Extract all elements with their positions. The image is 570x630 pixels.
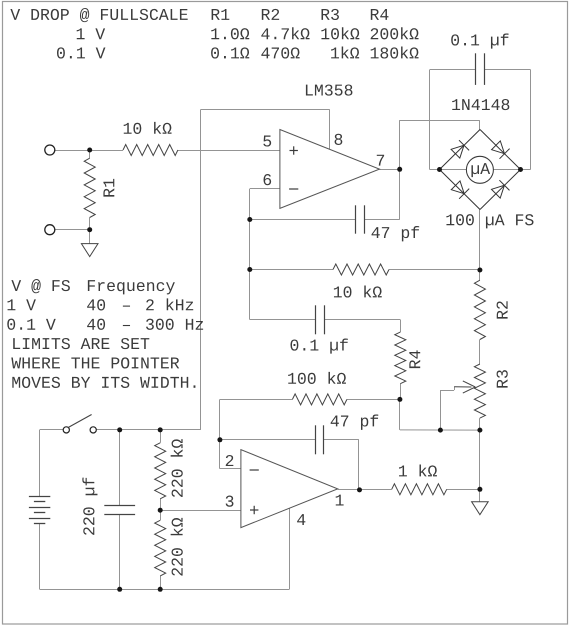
wire R4 bottom lead <box>400 384 402 400</box>
node bridge bottom / R2 top <box>477 268 482 273</box>
pin 2 label <box>226 455 234 466</box>
potentiometer R3 wiper arrow <box>454 386 471 388</box>
table header R4 <box>371 9 389 20</box>
table row2 R3 value <box>331 46 359 58</box>
node feedback res junction <box>247 267 252 272</box>
resistor 220 kOhm lower <box>155 520 166 576</box>
wire bottom of R3 horizontal <box>400 429 480 431</box>
op-amp U1B minus input sign <box>250 469 259 471</box>
node bridge right vertex <box>518 167 523 172</box>
op-amp U1B plus input sign <box>250 509 258 511</box>
wire inverting node 2 vertical <box>219 399 221 468</box>
wire bridge top drop <box>479 120 481 130</box>
wire feedback 10k right <box>389 269 480 271</box>
resistor 100 kOhm <box>292 394 347 405</box>
node input2 ground junction <box>87 227 92 232</box>
wire ground stub right <box>479 489 481 501</box>
diode D3 1N4148 bottom-left <box>451 181 464 194</box>
wire 1k to ground node <box>447 489 480 491</box>
node 47pf lower junction <box>217 437 222 442</box>
input terminal J1 <box>45 145 55 155</box>
op-amp U1A plus input sign <box>290 150 298 152</box>
op-amp U1A triangle <box>280 130 380 209</box>
label resistor 1k <box>399 464 437 476</box>
node R4 bottom junction <box>397 397 402 402</box>
wire to bridge right vertex <box>521 169 531 171</box>
wire bridge box right side <box>530 70 532 170</box>
table header R3 <box>322 9 339 20</box>
ground symbol right <box>472 502 489 515</box>
label resistor 220k lower <box>171 518 183 576</box>
wire bridge box top-left <box>430 69 476 71</box>
wire R4 node down <box>399 399 401 430</box>
node divider midpoint <box>158 508 163 513</box>
label capacitor 0.1uf top <box>451 33 508 48</box>
wire node to ground <box>89 230 91 244</box>
pin 6 label <box>264 174 272 185</box>
node op-amp2 output junction <box>357 487 362 492</box>
bridge edge bottom-right <box>480 170 521 210</box>
label capacitor 220uf <box>82 478 97 535</box>
note line1 left <box>11 279 70 293</box>
wire 47pf to output <box>358 440 360 490</box>
input terminal J2 <box>45 225 55 235</box>
pin 3 label <box>226 496 234 507</box>
node R3 bottom junction <box>477 428 482 433</box>
note line2 mid <box>87 299 105 310</box>
label capacitor 47pf upper <box>372 226 420 241</box>
wire output node vertical <box>399 120 401 219</box>
wire pin4 down <box>289 509 291 590</box>
note line2 left <box>7 299 35 310</box>
table row2 R1 value <box>211 47 249 58</box>
note line3 dash <box>123 325 130 326</box>
note line3 mid <box>87 319 105 330</box>
resistor R3 potentiometer body <box>474 364 485 418</box>
table row2 R4 value <box>371 46 419 58</box>
wire 47pf bottom left <box>220 439 315 441</box>
wire R4 top lead <box>400 320 402 333</box>
label capacitor 47pf lower <box>331 414 379 429</box>
capacitor 47 pf upper <box>355 205 357 233</box>
wire meter to right vertex <box>493 169 520 171</box>
wire 100k right <box>347 399 400 401</box>
op-amp U1B triangle <box>241 450 338 528</box>
pin 8 label <box>335 134 343 145</box>
note line4 <box>13 338 149 349</box>
wire divider mid to pin3 <box>160 510 241 512</box>
node 1k ground junction <box>477 487 482 492</box>
label feedback resistor 10k <box>334 285 382 297</box>
table row1 R2 value <box>261 27 309 39</box>
wire R3 node down to ground node <box>479 430 481 489</box>
wire 47pf top right <box>364 219 400 221</box>
wire bottom rail <box>40 589 290 591</box>
pin 5 label <box>263 136 271 147</box>
wire V+ rail horizontal to pin8 <box>201 109 330 111</box>
wire 220k lower top lead <box>160 510 162 520</box>
node bridge left vertex <box>437 167 442 172</box>
label capacitor 0.1uf middle <box>290 339 347 354</box>
wire input1 to 10k resistor <box>55 150 123 152</box>
wire input2 to node <box>55 229 90 231</box>
ground symbol left <box>81 244 98 257</box>
node top rail 220k <box>158 427 163 432</box>
wire bridge box top-right <box>485 69 531 71</box>
resistor R2 <box>474 280 485 339</box>
table header R2 <box>262 9 279 20</box>
wire 0.1uf left <box>250 319 316 321</box>
wire R2-R3 link <box>479 340 481 365</box>
wire V+ rail vertical <box>200 109 202 430</box>
wire R1 bottom lead <box>89 218 91 230</box>
label input resistor 10k <box>124 122 172 134</box>
pin 1 label <box>336 495 344 506</box>
label diodes 1N4148 <box>452 99 509 110</box>
node bottom rail 220uf <box>117 587 122 592</box>
wire wiper horizontal <box>440 390 454 392</box>
resistor R1 <box>84 158 95 217</box>
wire to bridge left vertex <box>430 169 440 171</box>
table row1 R1 value <box>211 28 249 39</box>
note line2 dash <box>123 306 130 307</box>
label resistor 220k upper <box>171 439 183 497</box>
node bottom rail 220k <box>158 587 163 592</box>
wire inverting node vertical <box>249 189 251 320</box>
note line3 left <box>7 319 55 330</box>
table row2 label <box>57 47 105 58</box>
diode D1 1N4148 top-left <box>451 145 464 158</box>
note line3 right <box>146 319 203 330</box>
label R1 <box>103 179 114 197</box>
node wiper bottom junction <box>438 428 443 433</box>
label resistor 100k <box>288 372 346 384</box>
wire pin1 output <box>338 489 392 491</box>
wire R3 bottom lead <box>479 418 481 430</box>
note line5 <box>11 357 179 368</box>
wire battery+ to switch <box>40 429 64 431</box>
wire feedback 10k left <box>250 269 333 271</box>
resistor 10 kOhm feedback <box>333 264 389 275</box>
wire 220k upper bottom lead <box>160 499 162 510</box>
wire R1 top lead <box>89 150 91 158</box>
wire bridge box left side <box>429 70 431 170</box>
note line2 right <box>146 298 193 310</box>
resistor 1 kOhm <box>392 484 447 495</box>
table row1 R3 value <box>321 27 359 39</box>
meter M1 label <box>471 163 490 177</box>
wire 220k upper top lead <box>160 430 162 443</box>
capacitor 47 pf lower <box>315 425 317 454</box>
battery B1 <box>29 496 50 498</box>
table row2 R2 value <box>261 47 299 58</box>
wire switch to V+ rail <box>96 429 201 431</box>
wire 10k to op-amp pin5 <box>178 150 280 152</box>
wire 0.1uf right <box>324 319 400 321</box>
table header left <box>10 8 187 22</box>
capacitor 0.1 uf middle <box>315 305 317 334</box>
switch SW1 pole contact <box>63 427 69 433</box>
label meter full scale <box>446 214 533 228</box>
wire R2 top lead <box>479 270 481 280</box>
wire 47pf bottom right <box>324 439 359 441</box>
bridge edge top-right <box>480 130 521 170</box>
node top rail 220uf <box>117 427 122 432</box>
meter M1 microammeter circle <box>466 156 493 183</box>
capacitor 0.1 uf top-right <box>475 53 477 85</box>
note line6 <box>12 377 195 388</box>
pin 4 label <box>297 514 305 525</box>
wire 220uf top lead <box>119 430 121 506</box>
diode D2 1N4148 top-right <box>492 141 505 154</box>
switch SW1 lever <box>68 415 91 428</box>
bridge edge top-left <box>440 130 481 170</box>
node pin7 output <box>397 167 402 172</box>
label U1 LM358 <box>306 84 353 95</box>
resistor 220 kOhm upper <box>155 443 166 499</box>
switch SW1 throw contact <box>90 427 96 433</box>
wire pin 8 drop <box>329 109 331 149</box>
node input junction <box>87 148 92 153</box>
label R3 <box>497 370 508 387</box>
wire 220uf bottom lead <box>119 514 121 589</box>
capacitor 220 uf <box>104 505 135 507</box>
wire pin7 output <box>380 169 400 171</box>
wire left vertex to meter <box>440 169 467 171</box>
wire wiper vertical <box>440 390 442 430</box>
wire wiper jog <box>454 387 456 390</box>
wire 47pf top left <box>250 219 356 221</box>
diode D4 1N4148 bottom-right <box>492 185 505 198</box>
op-amp U1A minus input sign <box>289 188 298 190</box>
wire 100k left <box>220 399 293 401</box>
wire pin6 stub <box>250 188 280 190</box>
label R2 <box>497 301 508 318</box>
wire bridge bottom down <box>479 210 481 271</box>
table row1 R4 value <box>371 27 419 39</box>
table row1 label <box>77 28 105 39</box>
wire output to bridge top <box>400 120 480 122</box>
table header R1 <box>212 9 230 20</box>
wire battery bottom lead <box>39 524 41 590</box>
node feedback cap junction <box>247 217 252 222</box>
wire battery top lead <box>39 430 41 497</box>
note line1 right <box>88 280 175 294</box>
resistor R4 <box>395 332 406 384</box>
resistor 10 kOhm input <box>123 145 178 156</box>
pin 7 label <box>377 155 384 166</box>
label R4 <box>409 350 420 368</box>
wire 220k lower bottom lead <box>160 576 162 589</box>
wire pin2 stub <box>220 468 241 470</box>
bridge edge bottom-left <box>440 170 481 210</box>
